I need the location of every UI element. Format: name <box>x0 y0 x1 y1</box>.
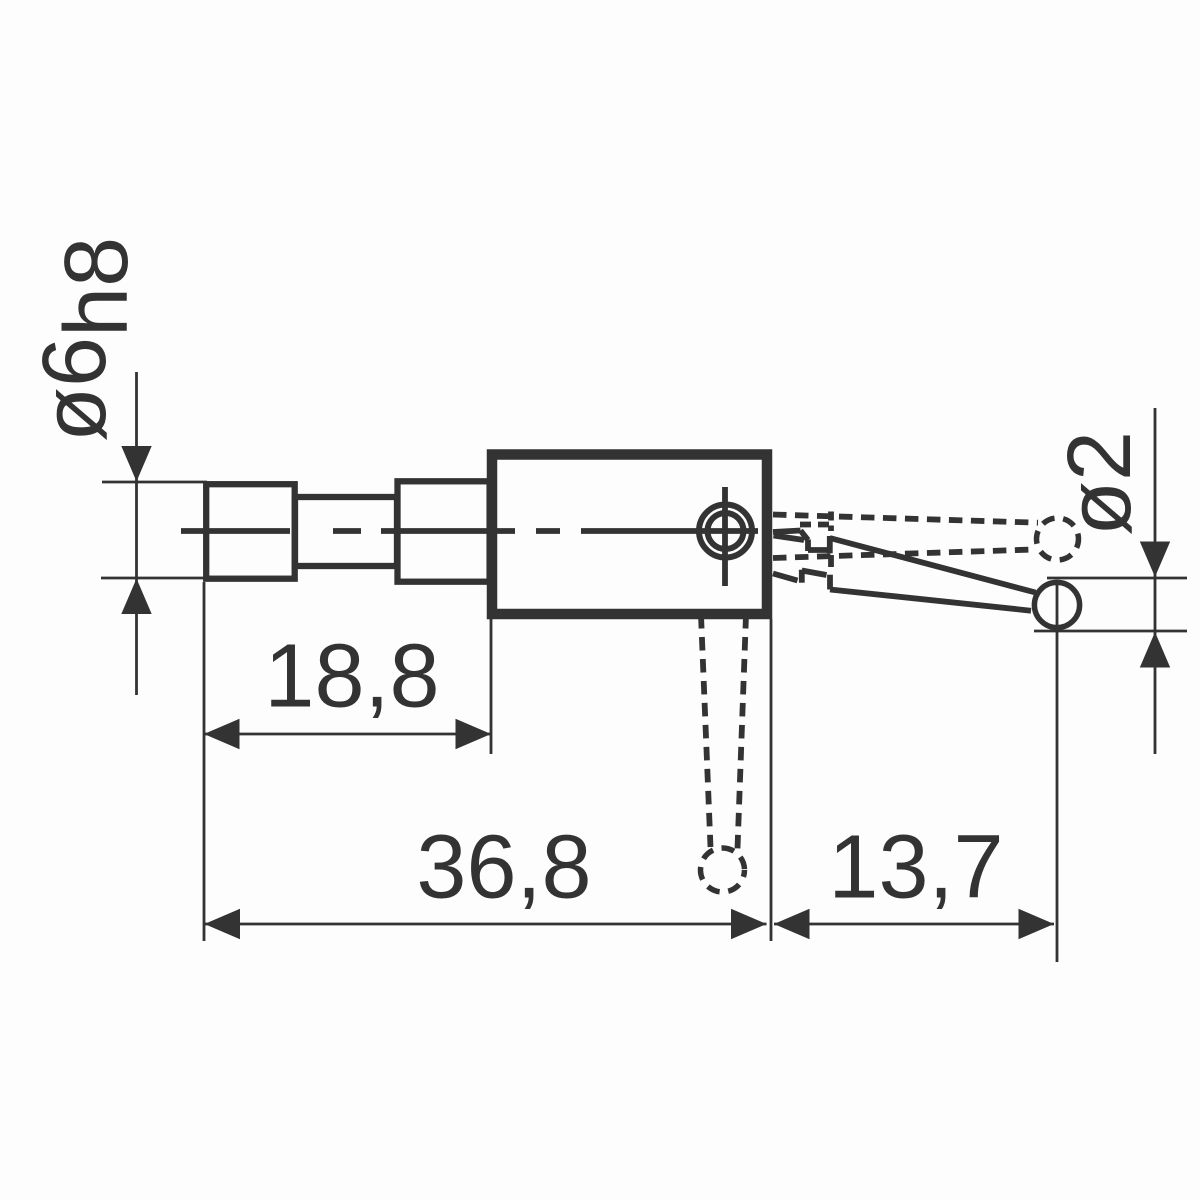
svg-text:36,8: 36,8 <box>416 818 591 918</box>
svg-text:13,7: 13,7 <box>828 818 1003 918</box>
svg-text:18,8: 18,8 <box>264 627 439 727</box>
svg-text:ø2: ø2 <box>1050 431 1150 536</box>
